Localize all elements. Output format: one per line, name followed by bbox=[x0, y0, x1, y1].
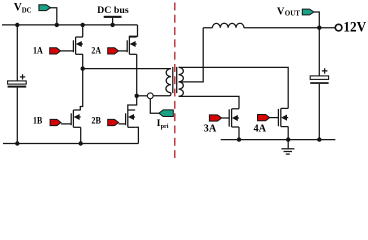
wire inductor to output terminal bbox=[244, 27, 335, 29]
net tag V_DC (green) bbox=[39, 5, 51, 11]
bottom rail (primary return) bbox=[3, 143, 138, 145]
wire secondary center tap to inductor bbox=[179, 28, 204, 82]
wire Cout to secondary rail bbox=[318, 84, 320, 140]
junction left rail / bottom rail bbox=[15, 141, 19, 145]
svg-text:V: V bbox=[277, 7, 285, 18]
capacitor Cout bbox=[310, 68, 328, 84]
junction Vdc tap / top rail bbox=[55, 23, 59, 27]
transistor 2B bbox=[119, 110, 136, 127]
wire Vdc tap bbox=[51, 8, 57, 25]
wire 2B source to bottom rail corner bbox=[135, 127, 138, 143]
wire node A to primary winding top bbox=[83, 68, 171, 70]
net tag V_OUT (green) bbox=[302, 9, 314, 15]
transistor 2A bbox=[119, 37, 137, 54]
top rail (DC bus) bbox=[2, 24, 138, 26]
junction left rail / top rail bbox=[15, 23, 19, 27]
gate tag 4A bbox=[258, 115, 270, 121]
left rail upper bbox=[16, 25, 18, 81]
svg-text:V: V bbox=[14, 2, 22, 14]
DC bus bar bbox=[104, 16, 122, 18]
wire top rail to 2A drain bbox=[129, 25, 137, 38]
wire node B to 2B drain bbox=[128, 96, 137, 110]
wire secondary top lead to 4A drain bbox=[179, 67, 289, 108]
svg-text:2A: 2A bbox=[91, 45, 101, 56]
wire 1A drain to top rail bbox=[82, 25, 84, 37]
output node junction bbox=[317, 26, 321, 30]
svg-text:pri: pri bbox=[161, 123, 169, 130]
gate tag 1B bbox=[50, 119, 61, 125]
ground bbox=[281, 140, 294, 155]
transistor 3A bbox=[222, 109, 239, 127]
svg-text:2B: 2B bbox=[91, 116, 101, 127]
svg-text:DC bus: DC bus bbox=[97, 5, 129, 16]
wire 1B source to bottom rail bbox=[80, 127, 82, 143]
node B junction bbox=[135, 94, 139, 98]
transistor 1B bbox=[61, 110, 81, 127]
junction 1B source / bottom rail bbox=[79, 141, 83, 145]
wire probe to I_pri tag bbox=[150, 99, 159, 113]
svg-text:12V: 12V bbox=[343, 20, 366, 36]
gate tag 2B bbox=[108, 119, 119, 125]
wire probe to primary winding bottom bbox=[153, 93, 171, 96]
wire node A to 1B drain bbox=[80, 69, 82, 110]
net tag I_pri (green) bbox=[159, 110, 173, 117]
junction Cout / ground rail bbox=[317, 137, 321, 141]
wire V_OUT tag stub bbox=[314, 12, 319, 28]
output terminal circle bbox=[335, 24, 342, 31]
transformer primary winding bbox=[166, 69, 171, 93]
transistor 1A bbox=[61, 37, 83, 54]
wire 3A source to rail bbox=[238, 127, 240, 140]
isolation boundary (red dashed line) bbox=[174, 3, 176, 163]
svg-text:3A: 3A bbox=[204, 123, 217, 134]
secondary ground rail bbox=[221, 139, 336, 141]
inductor Lout bbox=[203, 23, 244, 27]
gate tag 2A bbox=[108, 48, 119, 54]
wire secondary bottom lead to 3A drain bbox=[179, 96, 239, 108]
junction 3A source / ground rail bbox=[237, 137, 241, 141]
transistor 4A bbox=[270, 108, 289, 126]
gate tag 3A bbox=[209, 115, 221, 121]
node A junction bbox=[81, 66, 85, 70]
junction DC bus / top rail bbox=[110, 23, 114, 27]
wire 1A source to node A bbox=[82, 54, 84, 68]
svg-text:OUT: OUT bbox=[285, 9, 301, 17]
left rail lower bbox=[16, 88, 18, 144]
transformer secondary winding bbox=[179, 67, 184, 96]
wire 2A source to node B bbox=[136, 54, 138, 96]
wire output node to Cout bbox=[318, 28, 320, 76]
capacitor Cin bbox=[8, 74, 27, 87]
svg-text:4A: 4A bbox=[254, 123, 267, 134]
wire node B to current probe bbox=[137, 95, 148, 97]
svg-text:1B: 1B bbox=[33, 116, 43, 127]
current probe circle bbox=[147, 93, 153, 99]
svg-text:DC: DC bbox=[22, 7, 32, 14]
junction 4A source / ground rail bbox=[286, 137, 290, 141]
junction 1A drain / top rail bbox=[81, 23, 85, 27]
wire 4A source to rail bbox=[287, 127, 289, 140]
gate tag 1A bbox=[50, 48, 61, 54]
transformer core lines bbox=[173, 67, 177, 93]
wire DC bus stub bbox=[112, 18, 114, 25]
svg-text:1A: 1A bbox=[33, 45, 43, 56]
